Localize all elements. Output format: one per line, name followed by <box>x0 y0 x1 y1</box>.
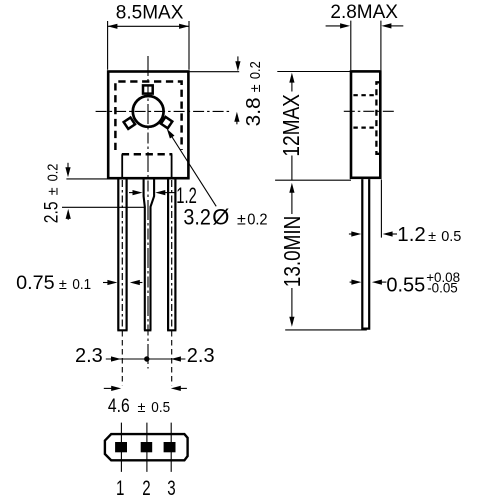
side view lead <box>361 179 370 329</box>
pin number 3 <box>167 477 175 500</box>
bottom view pin 2 pad <box>141 442 153 452</box>
svg-text:12MAX: 12MAX <box>278 94 304 157</box>
dimension 3.2 hole leader arrow <box>167 129 216 207</box>
dimension 0.75 arrows <box>103 280 142 285</box>
dimension 1.2 label (middle lead) <box>176 183 197 208</box>
dimension 8.5MAX line and arrows <box>107 21 189 70</box>
svg-text:2: 2 <box>142 477 150 500</box>
front view dashed bottom edge <box>122 153 173 156</box>
dimension 2.5 arrows <box>65 163 70 220</box>
mounting hole circle <box>133 96 164 127</box>
dimension 12MAX label <box>278 94 304 157</box>
right lead <box>167 179 176 330</box>
bottom view pin 1 pad <box>115 442 127 452</box>
pin number 1 <box>116 477 124 500</box>
dimension 0.55 label <box>386 270 460 297</box>
dimension 8.5MAX label <box>116 3 184 24</box>
front view body outline <box>108 72 188 179</box>
left diamond notch <box>124 118 135 129</box>
dimension 2.5 extension lines <box>62 179 145 207</box>
svg-text:2.8MAX: 2.8MAX <box>330 2 398 23</box>
dimension 2.3 line with arrows and dot <box>106 356 186 361</box>
svg-text:2.5±0.2: 2.5±0.2 <box>41 164 62 224</box>
dimension 1.2 side arrows <box>349 231 397 236</box>
side view hidden hole lines <box>353 95 375 127</box>
dimension 2.8MAX label <box>330 2 398 23</box>
dimension 12MAX extension lines <box>275 72 351 181</box>
bottom view pin lines <box>121 423 171 472</box>
dimension 0.75 label <box>16 273 91 294</box>
right lead extension dashed line <box>171 331 173 385</box>
dimension 1.2 side extension line <box>380 180 382 238</box>
bottom view outline <box>105 434 188 460</box>
dimension 0.55 arrows <box>350 280 387 285</box>
left lead centerline <box>121 180 123 329</box>
front view hidden dashed outline <box>115 82 181 151</box>
horizontal centerline <box>96 110 232 112</box>
top notch square <box>143 85 153 93</box>
svg-text:2.3: 2.3 <box>187 345 215 367</box>
dimension 13.0MIN label <box>279 216 305 288</box>
vertical centerline <box>147 56 149 369</box>
dimension 3.8 arrows <box>234 56 240 124</box>
dimension 2.3 right label <box>187 345 215 367</box>
svg-text:1: 1 <box>116 477 124 500</box>
svg-text:-0.05: -0.05 <box>427 280 458 295</box>
bottom view pin 3 pad <box>164 442 176 452</box>
dimension 2.3 left label <box>75 345 103 367</box>
middle lead <box>144 179 155 330</box>
svg-text:3: 3 <box>167 477 175 500</box>
side view centerline <box>344 110 397 112</box>
svg-text:8.5MAX: 8.5MAX <box>116 3 184 24</box>
pin number 2 <box>142 477 150 500</box>
svg-text:13.0MIN: 13.0MIN <box>279 216 305 288</box>
svg-text:4.6±0.5: 4.6±0.5 <box>108 396 170 417</box>
dimension 4.6 arrows <box>104 386 187 391</box>
dimension 3.2 hole label <box>183 205 267 230</box>
side view body outline <box>351 71 380 177</box>
right lead centerline <box>171 180 173 329</box>
dimension 12MAX line and arrow <box>289 73 294 181</box>
side view hidden dashed hook line <box>376 82 379 154</box>
dimension 2.5 label <box>41 164 62 224</box>
dimension 1.2 side label <box>397 223 461 246</box>
dimension 2.8MAX arrows <box>326 21 404 70</box>
dimension 3.8 extension line <box>189 71 239 73</box>
front view step vertical lines <box>122 154 171 177</box>
dimension 1.2 arrows (middle lead) <box>129 190 176 195</box>
dimension 4.6 label <box>108 396 170 417</box>
dimension 13.0MIN arrows <box>285 183 367 330</box>
right diamond notch <box>161 117 172 128</box>
left lead extension dashed line <box>121 331 123 385</box>
dimension 3.8 label <box>242 61 265 126</box>
svg-text:0.55: 0.55 <box>386 274 425 297</box>
left lead <box>117 179 127 330</box>
svg-text:0.75±0.1: 0.75±0.1 <box>16 273 91 294</box>
svg-text:2.3: 2.3 <box>75 345 103 367</box>
